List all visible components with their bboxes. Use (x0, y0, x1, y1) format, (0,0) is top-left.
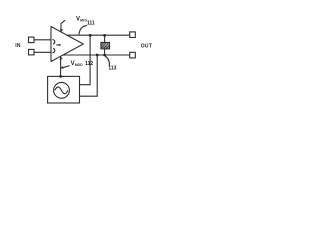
chopper arrow (56, 44, 60, 46)
feedback wire A (top wire to box) (80, 35, 91, 84)
svg-text:112: 112 (85, 61, 93, 67)
svg-text:113: 113 (108, 66, 116, 72)
sine wave (55, 87, 68, 94)
node Vmod-box junction dot (59, 75, 62, 78)
Vmid arrowhead (60, 29, 63, 33)
chopper hook top input (52, 40, 54, 45)
Vmod wire arrowhead into amp (60, 56, 63, 60)
leader 111 (79, 25, 87, 34)
modulation source box 112 (48, 76, 80, 103)
svg-text:OUT: OUT (141, 43, 153, 49)
svg-text:111: 111 (87, 21, 95, 27)
chopper hook bottom input (52, 48, 54, 53)
terminal square IN+ (29, 37, 35, 43)
wire output bottom (63, 54, 130, 56)
wire input bottom (34, 51, 51, 53)
node bottom-B junction dot (96, 54, 99, 57)
wire input top (34, 39, 51, 41)
Vmid leader line (61, 20, 65, 29)
Vmod wire (triangle bottom to box) (60, 56, 62, 76)
leader arrow Vmod (63, 66, 70, 68)
terminal square OUT top (130, 32, 136, 38)
AC source circle (54, 82, 70, 98)
element 113 top stub (104, 35, 106, 42)
op-amp U111 triangle (51, 27, 83, 62)
feedback wire B (bottom wire to box) (80, 55, 98, 96)
wire output top (67, 34, 130, 36)
node bottom-113 junction dot (103, 54, 106, 57)
node top-113 junction dot (103, 34, 106, 37)
leader 113 (105, 56, 109, 66)
svg-text:IN: IN (15, 43, 21, 49)
element 113 bottom stub (104, 49, 106, 55)
node top-A junction dot (89, 34, 92, 37)
svg-text:MOD: MOD (75, 63, 83, 67)
terminal square IN- (29, 49, 35, 55)
terminal square OUT bottom (130, 52, 136, 58)
element 113 body (101, 42, 110, 49)
